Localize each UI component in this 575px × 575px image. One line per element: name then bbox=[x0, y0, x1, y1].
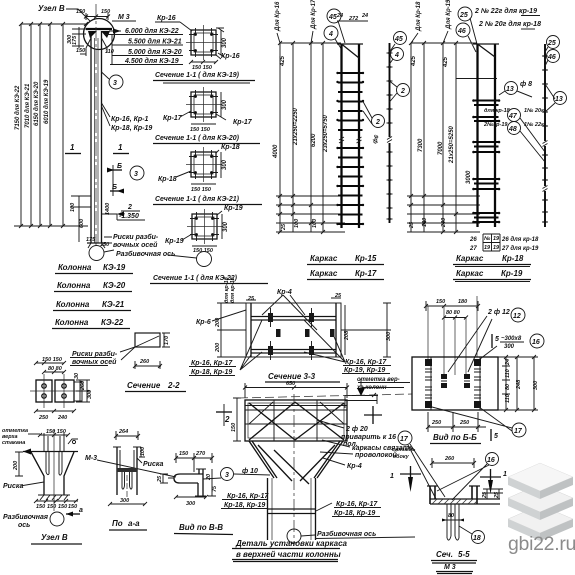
svg-text:25: 25 bbox=[494, 491, 500, 499]
circle 16 bbox=[486, 453, 499, 466]
svg-text:180: 180 bbox=[458, 299, 467, 305]
svg-text:Кр-16, Кр-1: Кр-16, Кр-1 bbox=[111, 116, 148, 123]
bottom dims bbox=[426, 412, 486, 432]
svg-text:КЭ-20: КЭ-20 bbox=[103, 281, 126, 290]
svg-text:300: 300 bbox=[222, 99, 228, 110]
base plan detail (two anchor squares) bbox=[30, 357, 93, 421]
left long dim lines bbox=[21, 24, 63, 226]
M-3 leader between details bbox=[85, 455, 176, 477]
base circle bbox=[89, 246, 104, 261]
svg-text:260: 260 bbox=[139, 359, 149, 365]
bolts on chords bbox=[268, 313, 335, 355]
corner bolts bbox=[425, 359, 481, 408]
svg-text:150: 150 bbox=[436, 299, 445, 305]
svg-text:Кр-16, Кр-17: Кр-16, Кр-17 bbox=[345, 359, 387, 366]
svg-text:4000: 4000 bbox=[273, 144, 279, 159]
svg-text:3: 3 bbox=[113, 80, 117, 87]
svg-text:5.000 для КЭ-20: 5.000 для КЭ-20 bbox=[128, 48, 182, 56]
svg-text:1: 1 bbox=[390, 473, 394, 480]
svg-text:Сечение: Сечение bbox=[127, 381, 161, 390]
funnel braces bbox=[258, 445, 335, 484]
svg-text:17: 17 bbox=[514, 428, 523, 435]
right dims bbox=[506, 357, 534, 410]
svg-text:300: 300 bbox=[120, 498, 129, 504]
uzel V anchor socket detail bbox=[2, 428, 83, 544]
top frame box bbox=[245, 400, 347, 441]
svg-text:Риски разби-: Риски разби- bbox=[72, 350, 118, 358]
svg-text:300: 300 bbox=[223, 221, 229, 232]
circle 2 left bbox=[372, 115, 385, 128]
svg-text:6150 для КЭ-20: 6150 для КЭ-20 bbox=[34, 81, 40, 126]
svg-text:а-а: а-а bbox=[128, 519, 140, 528]
svg-text:2 № 22г для кр-19: 2 № 22г для кр-19 bbox=[474, 7, 537, 15]
svg-text:200: 200 bbox=[13, 461, 19, 471]
svg-text:Вид по Б-Б: Вид по Б-Б bbox=[433, 433, 477, 442]
svg-text:200: 200 bbox=[215, 318, 221, 328]
funnel walls bbox=[31, 452, 74, 495]
svg-text:Кр-16: Кр-16 bbox=[221, 53, 240, 60]
svg-text:сбоку: сбоку bbox=[393, 453, 410, 460]
column shaft bbox=[91, 31, 102, 243]
svg-text:264: 264 bbox=[118, 429, 128, 435]
svg-text:300: 300 bbox=[222, 159, 228, 170]
svg-text:300: 300 bbox=[186, 501, 195, 507]
channel bbox=[430, 486, 477, 504]
svg-text:170: 170 bbox=[164, 336, 170, 345]
middle bolts bbox=[441, 374, 470, 388]
svg-text:№: № bbox=[484, 236, 491, 242]
svg-text:Кр-6: Кр-6 bbox=[196, 319, 211, 326]
svg-text:45: 45 bbox=[328, 14, 337, 21]
svg-text:24: 24 bbox=[505, 359, 511, 366]
circles 47 48 bbox=[508, 109, 521, 122]
svg-text:425: 425 bbox=[443, 56, 449, 68]
node circle axis bbox=[287, 529, 301, 543]
svg-text:Кр-16: Кр-16 bbox=[157, 15, 176, 22]
svg-text:КЭ-19: КЭ-19 bbox=[103, 263, 126, 272]
node circle under S4 bbox=[197, 252, 212, 267]
svg-text:Сечение 1-1 ( для КЭ-19): Сечение 1-1 ( для КЭ-19) bbox=[155, 71, 240, 79]
svg-text:150 150: 150 150 bbox=[46, 429, 66, 435]
svg-text:19: 19 bbox=[493, 236, 500, 242]
svg-text:19: 19 bbox=[484, 245, 491, 251]
vid po B-B base plate plan bbox=[392, 296, 544, 499]
svg-text:2-2: 2-2 bbox=[167, 381, 180, 390]
svg-text:2: 2 bbox=[224, 415, 230, 424]
svg-text:48: 48 bbox=[508, 126, 517, 133]
svg-text:6010 для КЭ-19: 6010 для КЭ-19 bbox=[44, 79, 50, 124]
section mark 2 left bbox=[216, 411, 232, 413]
svg-text:Кр-18, Кр-19: Кр-18, Кр-19 bbox=[111, 125, 152, 132]
svg-text:80: 80 bbox=[448, 513, 454, 519]
section 2-2 source plate bbox=[70, 333, 186, 392]
Po a-a channel section bbox=[108, 429, 163, 530]
dims below bbox=[34, 409, 76, 413]
svg-text:Сечение 1-1 ( для КЭ-20): Сечение 1-1 ( для КЭ-20) bbox=[155, 134, 240, 142]
detail: cage installation elevation bbox=[216, 381, 415, 562]
svg-text:в верхней части колонны: в верхней части колонны bbox=[236, 550, 341, 559]
svg-text:7150 для КЭ-22: 7150 для КЭ-22 bbox=[15, 85, 21, 130]
svg-text:1: 1 bbox=[70, 143, 75, 152]
level dash line otmetka verha kolonn bbox=[239, 394, 412, 398]
svg-text:47: 47 bbox=[508, 113, 518, 120]
svg-text:150: 150 bbox=[179, 451, 188, 457]
svg-text:Кр-18: Кр-18 bbox=[158, 176, 177, 183]
svg-text:6.000 для КЭ-22: 6.000 для КЭ-22 bbox=[125, 27, 179, 35]
svg-text:2№кр-19: 2№кр-19 bbox=[483, 122, 508, 128]
top line of socket bbox=[23, 451, 78, 453]
svg-text:3000: 3000 bbox=[466, 170, 472, 184]
5 300x8 and circle 16 bbox=[491, 334, 493, 348]
svg-text:для кр-18: для кр-18 bbox=[230, 276, 236, 303]
svg-text:240: 240 bbox=[57, 415, 67, 421]
svg-text:вочных осей: вочных осей bbox=[113, 241, 158, 249]
circles 25 46 top right bbox=[547, 36, 560, 49]
svg-text:150: 150 bbox=[68, 504, 77, 510]
rungs bbox=[338, 73, 363, 224]
svg-text:Кр-18, Кр-19: Кр-18, Кр-19 bbox=[191, 369, 232, 376]
svg-text:27: 27 bbox=[469, 246, 477, 252]
funnel bbox=[249, 441, 343, 478]
single bar right bbox=[389, 43, 391, 223]
svg-text:Риски разби-: Риски разби- bbox=[113, 233, 159, 241]
svg-text:7300: 7300 bbox=[418, 138, 424, 152]
svg-text:2: 2 bbox=[375, 119, 380, 126]
X bracing bbox=[249, 402, 344, 440]
svg-text:По: По bbox=[112, 519, 123, 528]
svg-text:gbi22.ru: gbi22.ru bbox=[508, 533, 575, 555]
column list bbox=[52, 263, 133, 329]
svg-text:46: 46 bbox=[457, 28, 466, 35]
svg-text:Для Кр-19: Для Кр-19 bbox=[446, 0, 452, 30]
svg-text:Кр-19: Кр-19 bbox=[224, 205, 243, 212]
node circle head bbox=[84, 19, 115, 50]
svg-text:300: 300 bbox=[87, 390, 93, 399]
svg-text:175: 175 bbox=[86, 237, 96, 243]
svg-text:140: 140 bbox=[422, 218, 428, 227]
svg-text:250: 250 bbox=[431, 420, 441, 426]
ladder rails bbox=[342, 44, 360, 228]
channel walls bbox=[117, 447, 137, 495]
svg-text:2: 2 bbox=[127, 204, 132, 211]
B section marks bbox=[107, 169, 122, 171]
channel bottom hatched bbox=[117, 468, 137, 472]
plate 2 (middle) bbox=[508, 484, 573, 520]
svg-text:260: 260 bbox=[80, 381, 86, 391]
svg-text:110: 110 bbox=[505, 369, 511, 378]
svg-text:~300х8: ~300х8 bbox=[501, 336, 522, 342]
svg-text:Каркас: Каркас bbox=[310, 269, 338, 278]
svg-text:Колонна: Колонна bbox=[55, 318, 89, 327]
svg-text:Кр-16, Кр-17: Кр-16, Кр-17 bbox=[191, 360, 233, 367]
bracket profile bbox=[180, 474, 203, 483]
svg-text:240: 240 bbox=[441, 218, 447, 228]
svg-text:М 3: М 3 bbox=[118, 14, 130, 21]
svg-text:5: 5 bbox=[495, 336, 499, 343]
Vid po V-V bracket detail bbox=[157, 451, 270, 535]
svg-text:Кр-18, Кр-19: Кр-18, Кр-19 bbox=[334, 510, 375, 517]
svg-text:300: 300 bbox=[386, 332, 392, 341]
svg-text:Кр-19: Кр-19 bbox=[501, 269, 523, 278]
bottom mini table bbox=[483, 234, 500, 251]
plate 3 (bottom) bbox=[508, 505, 573, 541]
svg-text:17: 17 bbox=[400, 436, 409, 443]
svg-text:425: 425 bbox=[280, 55, 286, 67]
svg-text:7010 для КЭ-21: 7010 для КЭ-21 bbox=[25, 83, 31, 128]
svg-text:КЭ-22: КЭ-22 bbox=[101, 318, 124, 327]
left dim bbox=[233, 398, 241, 441]
svg-text:300: 300 bbox=[67, 35, 73, 44]
circle 3 with phi10 bbox=[221, 468, 234, 481]
svg-text:Кр-4: Кр-4 bbox=[277, 289, 292, 296]
svg-text:12: 12 bbox=[513, 313, 521, 320]
svg-text:Кр-19: Кр-19 bbox=[165, 238, 184, 245]
svg-text:Сеч.: Сеч. bbox=[436, 550, 453, 559]
projection lines bbox=[428, 296, 477, 375]
svg-text:45: 45 bbox=[394, 36, 403, 43]
svg-text:150: 150 bbox=[36, 504, 45, 510]
circle 3 callout bbox=[109, 75, 123, 89]
base riska bbox=[87, 242, 106, 244]
circle 18 bbox=[472, 531, 485, 544]
svg-text:75: 75 bbox=[212, 485, 218, 492]
leaders to circle 17 bbox=[512, 423, 526, 437]
svg-text:150: 150 bbox=[101, 9, 110, 15]
rebar cage Kr-18/Kr-19 (ladder 2) bbox=[407, 0, 567, 282]
circle 13 with phi8 bbox=[505, 82, 518, 95]
svg-text:вочных осей: вочных осей bbox=[72, 358, 117, 366]
svg-text:Каркас: Каркас bbox=[310, 254, 338, 263]
svg-text:150: 150 bbox=[231, 423, 237, 432]
svg-text:Кр-17: Кр-17 bbox=[233, 119, 253, 126]
circle 17 left bbox=[398, 431, 412, 445]
column head cap bbox=[86, 28, 112, 30]
svg-text:а: а bbox=[79, 507, 83, 514]
svg-text:150 150: 150 150 bbox=[190, 127, 210, 133]
svg-text:Узел В: Узел В bbox=[38, 4, 65, 13]
rebar cage Kr-15/Kr-17 (ladder 1) bbox=[273, 0, 410, 280]
svg-text:250: 250 bbox=[459, 420, 469, 426]
ladder rails bbox=[456, 78, 497, 80]
right flange extension bbox=[477, 499, 500, 504]
svg-text:24: 24 bbox=[361, 13, 368, 19]
svg-text:25: 25 bbox=[482, 491, 488, 499]
circle 2 right bbox=[397, 84, 410, 97]
svg-text:5-5: 5-5 bbox=[458, 550, 470, 559]
svg-text:270: 270 bbox=[195, 451, 205, 457]
svg-text:Кр-16, Кр-17: Кр-16, Кр-17 bbox=[336, 501, 378, 508]
svg-text:Вид по В-В: Вид по В-В bbox=[179, 523, 223, 532]
svg-text:5: 5 bbox=[494, 433, 498, 440]
svg-text:25: 25 bbox=[247, 296, 255, 302]
svg-text:18: 18 bbox=[473, 535, 481, 542]
small dims bbox=[160, 474, 174, 483]
column elevation K3 (top-left) bbox=[14, 4, 197, 261]
bottom dim bbox=[108, 502, 147, 506]
circle 3 second bbox=[130, 166, 144, 180]
svg-text:25: 25 bbox=[547, 40, 556, 47]
stem rungs bbox=[268, 509, 316, 514]
left dim bbox=[15, 452, 23, 476]
svg-text:Риска: Риска bbox=[3, 483, 23, 490]
svg-text:208: 208 bbox=[344, 330, 350, 341]
svg-text:для кр-18: для кр-18 bbox=[484, 108, 511, 114]
hatch in channel bottom bbox=[432, 499, 477, 504]
right dims bbox=[341, 303, 391, 357]
svg-text:2 ф 12: 2 ф 12 bbox=[487, 309, 510, 316]
svg-text:Кр-18, Кр-19: Кр-18, Кр-19 bbox=[224, 502, 265, 509]
centerline and axis circle bbox=[293, 394, 295, 546]
rail break marks bbox=[339, 137, 362, 143]
svg-text:Разбивочная ось: Разбивочная ось bbox=[317, 530, 376, 538]
svg-text:25: 25 bbox=[157, 475, 163, 483]
column stub above bbox=[44, 433, 64, 452]
head flare lines bbox=[86, 38, 107, 56]
svg-text:25: 25 bbox=[459, 12, 468, 19]
svg-text:110: 110 bbox=[505, 394, 511, 403]
svg-text:250: 250 bbox=[38, 415, 48, 421]
svg-text:Каркас: Каркас bbox=[456, 254, 484, 263]
rungs bbox=[474, 101, 499, 223]
anchor prongs with hooks bbox=[122, 472, 132, 488]
svg-text:260: 260 bbox=[444, 456, 454, 462]
svg-text:6200: 6200 bbox=[311, 133, 317, 147]
svg-text:Разбивочная ось: Разбивочная ось bbox=[116, 250, 175, 258]
O flag bbox=[68, 439, 78, 444]
left rotated dims 200 200 bbox=[217, 303, 246, 357]
circles 45 4 near bar bbox=[394, 32, 407, 45]
svg-text:Для Кр-16: Для Кр-16 bbox=[275, 1, 281, 32]
dim lines bbox=[411, 43, 456, 232]
left head dims 175/300 bbox=[72, 27, 88, 48]
svg-text:25: 25 bbox=[281, 223, 287, 231]
single bar right bbox=[544, 44, 546, 227]
section 3-3 plan bbox=[189, 276, 410, 424]
svg-text:24: 24 bbox=[336, 13, 343, 19]
anchor bolts inside bbox=[46, 452, 62, 474]
svg-text:150 150: 150 150 bbox=[193, 248, 213, 254]
svg-text:150: 150 bbox=[76, 48, 85, 54]
svg-text:Колонна: Колонна bbox=[57, 281, 91, 290]
svg-text:425: 425 bbox=[411, 55, 417, 67]
svg-text:21х250=5250: 21х250=5250 bbox=[449, 125, 455, 164]
svg-text:М-3: М-3 bbox=[85, 455, 97, 462]
bottom dim bbox=[174, 495, 208, 499]
leaders Kr-16 Kr-17 bbox=[102, 103, 111, 126]
svg-text:Для Кр-18: Для Кр-18 bbox=[416, 1, 422, 32]
svg-text:Для Кр-17: Для Кр-17 bbox=[311, 0, 317, 30]
svg-text:1: 1 bbox=[118, 143, 123, 152]
svg-text:Кр-18: Кр-18 bbox=[221, 144, 240, 151]
svg-text:7000: 7000 bbox=[438, 141, 444, 155]
svg-text:300: 300 bbox=[533, 381, 539, 390]
svg-text:16: 16 bbox=[487, 457, 495, 464]
svg-text:80 80: 80 80 bbox=[446, 310, 460, 316]
svg-text:4: 4 bbox=[394, 52, 399, 59]
svg-text:1№ 20г: 1№ 20г bbox=[524, 108, 544, 114]
leader to head bbox=[66, 9, 90, 21]
svg-text:600: 600 bbox=[79, 219, 85, 228]
svg-text:3: 3 bbox=[134, 171, 138, 178]
svg-text:46: 46 bbox=[547, 54, 556, 61]
svg-text:Кр-19, Кр-19: Кр-19, Кр-19 bbox=[344, 367, 385, 374]
svg-text:110: 110 bbox=[105, 49, 114, 55]
leaders riski bbox=[98, 237, 112, 243]
svg-text:Колонна: Колонна bbox=[58, 263, 92, 272]
svg-text:19: 19 bbox=[493, 245, 500, 251]
bottom dims bbox=[34, 499, 78, 503]
gbi22.ru watermark logo bbox=[508, 463, 575, 555]
svg-text:150 150: 150 150 bbox=[191, 187, 211, 193]
svg-text:Риска: Риска bbox=[143, 461, 163, 468]
svg-text:Каркас: Каркас bbox=[456, 269, 484, 278]
svg-text:23х250=5750: 23х250=5750 bbox=[323, 114, 329, 153]
svg-text:М 3: М 3 bbox=[444, 564, 456, 571]
svg-text:200: 200 bbox=[215, 343, 221, 353]
right level callouts bbox=[113, 29, 121, 34]
circle 13 right bbox=[554, 92, 567, 105]
svg-text:150: 150 bbox=[76, 9, 85, 15]
svg-text:стакана: стакана bbox=[2, 440, 25, 446]
svg-text:Кр-17: Кр-17 bbox=[163, 115, 183, 122]
svg-text:26 для кр-18: 26 для кр-18 bbox=[501, 237, 539, 243]
svg-text:4: 4 bbox=[328, 31, 333, 38]
svg-text:Сечение 1-1 ( для КЭ-21): Сечение 1-1 ( для КЭ-21) bbox=[155, 195, 240, 203]
cross mark section 4 bbox=[364, 406, 382, 424]
stem bbox=[268, 478, 316, 540]
sections column bbox=[150, 15, 268, 284]
svg-text:13: 13 bbox=[506, 86, 514, 93]
svg-text:Кр-16, Кр-17: Кр-16, Кр-17 bbox=[227, 493, 269, 500]
leader diagonals bbox=[262, 295, 317, 330]
svg-text:150: 150 bbox=[47, 504, 56, 510]
svg-text:2 ф 20: 2 ф 20 bbox=[345, 426, 368, 433]
svg-text:1: 1 bbox=[503, 471, 507, 478]
svg-text:КЭ-21: КЭ-21 bbox=[102, 300, 125, 309]
svg-text:2 № 20г для кр-18: 2 № 20г для кр-18 bbox=[478, 20, 541, 28]
callout circles 45 and 4 bbox=[327, 9, 341, 23]
svg-text:1400: 1400 bbox=[105, 203, 111, 215]
svg-text:Кр-4: Кр-4 bbox=[347, 463, 362, 470]
svg-text:80: 80 bbox=[505, 384, 511, 390]
svg-text:5.500 для КЭ-21: 5.500 для КЭ-21 bbox=[128, 38, 182, 46]
svg-text:100: 100 bbox=[140, 447, 146, 456]
svg-text:Узел В: Узел В bbox=[41, 533, 68, 542]
svg-text:Кр-17: Кр-17 bbox=[355, 269, 377, 278]
svg-text:100: 100 bbox=[312, 219, 318, 228]
svg-text:Разбивочная: Разбивочная bbox=[3, 513, 48, 521]
svg-text:2: 2 bbox=[400, 88, 405, 95]
svg-text:100: 100 bbox=[294, 219, 300, 228]
svg-text:150: 150 bbox=[58, 504, 67, 510]
section 5-5 channel detail bbox=[390, 453, 507, 574]
svg-text:26: 26 bbox=[469, 237, 477, 243]
svg-text:Кр-15: Кр-15 bbox=[355, 254, 377, 263]
svg-text:3: 3 bbox=[225, 472, 229, 479]
svg-text:650: 650 bbox=[286, 381, 295, 387]
top annotation texts bbox=[458, 7, 472, 21]
svg-text:25: 25 bbox=[409, 221, 415, 229]
svg-text:27 для кр-19: 27 для кр-19 bbox=[501, 246, 539, 252]
svg-text:ф 8: ф 8 bbox=[520, 81, 532, 88]
svg-text:20: 20 bbox=[206, 474, 212, 481]
dim lines bbox=[280, 43, 323, 232]
svg-text:16: 16 bbox=[532, 339, 540, 346]
svg-text:300: 300 bbox=[222, 37, 228, 48]
svg-text:150 150: 150 150 bbox=[192, 65, 212, 71]
svg-text:21х250=2250: 21х250=2250 bbox=[293, 107, 299, 146]
right rotated dims bbox=[76, 380, 90, 402]
